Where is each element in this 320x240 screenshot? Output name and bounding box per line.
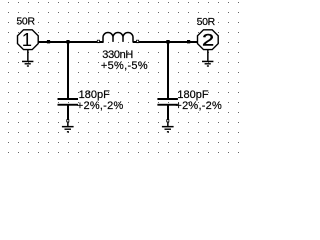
wire junction N1 down to C1 (67, 42, 69, 99)
svg-text:+2%,-2%: +2%,-2% (175, 100, 222, 112)
svg-text:2: 2 (202, 32, 214, 50)
ground under capacitor C1 (62, 122, 74, 132)
port P1 label 50R (16, 16, 35, 28)
port P2 octagon symbol (198, 30, 219, 50)
svg-text:1: 1 (22, 29, 32, 50)
svg-text:50R: 50R (197, 16, 216, 28)
capacitor C2 bottom terminal node (166, 119, 169, 122)
capacitor C1 bottom terminal node (66, 119, 69, 122)
svg-text:50R: 50R (16, 16, 35, 28)
capacitor C2 tolerance label +2%,-2% (175, 100, 222, 112)
wire junction N2 down to C2 (167, 42, 169, 99)
capacitor C1 value label 180pF (79, 89, 110, 101)
wire port1 to inductor (38, 41, 104, 43)
wire inductor to port2 (133, 41, 198, 43)
capacitor C1 (58, 98, 79, 121)
port P2 terminal node (187, 40, 190, 43)
port P1 number 1 (22, 29, 32, 50)
capacitor C2 (157, 98, 178, 121)
inductor L1 value label 330nH (102, 49, 133, 61)
port P1 octagon symbol (18, 30, 39, 50)
capacitor C2 value label 180pF (177, 89, 208, 101)
inductor L1 tolerance label +5%,-5% (101, 60, 148, 72)
port P2 label 50R (197, 16, 216, 28)
capacitor C1 tolerance label +2%,-2% (77, 100, 124, 112)
ground under port P2 (202, 50, 213, 67)
ground under port P1 (22, 50, 33, 67)
ground under capacitor C2 (162, 122, 174, 132)
svg-text:+5%,-5%: +5%,-5% (101, 60, 148, 72)
svg-text:+2%,-2%: +2%,-2% (77, 100, 124, 112)
junction node N1 (66, 40, 69, 44)
inductor L1 (97, 33, 139, 44)
port P1 terminal node (47, 40, 50, 43)
port P2 number 2 (202, 32, 214, 50)
junction node N2 (166, 40, 169, 44)
